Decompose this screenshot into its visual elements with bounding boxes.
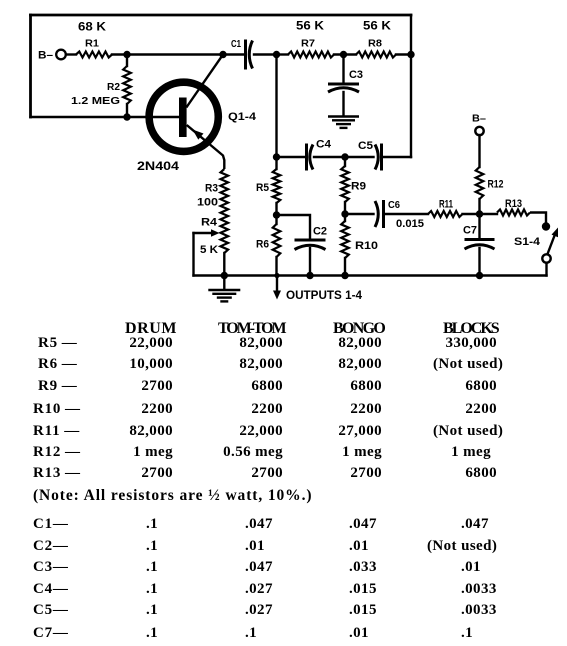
- svg-text:2N404: 2N404: [137, 159, 179, 173]
- svg-text:56 K: 56 K: [296, 18, 324, 32]
- node: R7/R8/C3 junction: [340, 51, 347, 58]
- svg-text:C1: C1: [231, 38, 241, 50]
- wire: C1 to R7 node: [254, 53, 276, 55]
- resistor R12: [476, 167, 484, 214]
- svg-text:C3: C3: [349, 69, 363, 81]
- capacitor C7: [465, 238, 495, 241]
- potentiometer R4 wiper arm: [194, 229, 220, 275]
- svg-text:R3: R3: [205, 183, 218, 195]
- wire: node to R7: [277, 53, 289, 55]
- wire: C7 to bottom rail: [478, 248, 480, 276]
- svg-text:100: 100: [197, 197, 218, 209]
- svg-text:R9: R9: [351, 181, 366, 193]
- svg-text:R12: R12: [488, 179, 504, 191]
- resistor R13: [480, 210, 531, 216]
- svg-text:B–: B–: [38, 50, 53, 62]
- wire: C2 to bottom rail: [309, 248, 311, 276]
- capacitor C6: [382, 200, 385, 228]
- svg-text:R6: R6: [256, 239, 269, 251]
- svg-text:R2: R2: [107, 81, 120, 93]
- svg-text:R11: R11: [439, 199, 453, 211]
- node: R5/C4 junction: [273, 153, 280, 160]
- wire: C5 to right edge: [383, 156, 411, 158]
- node: C7 bottom junction: [476, 272, 483, 279]
- wire: R9/R10 node to C6: [345, 213, 374, 215]
- transistor Q1-4 base bar: [179, 98, 187, 138]
- wire: C3 to ground: [342, 92, 344, 116]
- wire: left box bottom to transistor base: [31, 116, 179, 118]
- transistor Q1-4 body circle: [149, 82, 218, 151]
- wire: R7 to C3 node: [334, 53, 356, 55]
- resistor R3 and R4 (5K pot) element: [221, 169, 229, 276]
- resistor R2: [123, 55, 131, 118]
- wire: node to C5: [345, 156, 374, 158]
- wire: R1 to base node: [112, 53, 127, 55]
- svg-text:R10: R10: [355, 240, 378, 252]
- svg-text:C7: C7: [463, 225, 477, 237]
- svg-text:5 K: 5 K: [200, 244, 218, 256]
- wire: B- terminal to R1: [66, 53, 76, 55]
- frame wire: top feedback rail: [31, 14, 412, 17]
- wire: B- to R12: [478, 135, 480, 167]
- capacitor C1: [244, 40, 247, 70]
- wire: junction down to R5/C4 node: [275, 55, 277, 158]
- wire: C7 from summing node: [478, 214, 480, 238]
- svg-text:56 K: 56 K: [363, 18, 391, 32]
- capacitor C4: [305, 144, 308, 171]
- resistor R10: [341, 214, 349, 276]
- wire: R8 to right edge: [396, 53, 411, 55]
- ground below R4: [208, 276, 240, 302]
- node: R2 bottom junction: [123, 113, 130, 120]
- terminal B- right: [472, 112, 486, 135]
- node: R11/R12/R13/C7 junction: [476, 210, 483, 217]
- svg-text:R5: R5: [256, 182, 269, 194]
- wire: bottom rail: [194, 274, 547, 276]
- svg-text:C4: C4: [316, 139, 332, 151]
- resistor R5: [273, 157, 281, 215]
- svg-text:C6: C6: [388, 199, 400, 211]
- svg-text:B–: B–: [472, 112, 486, 124]
- svg-text:68 K: 68 K: [78, 19, 106, 33]
- switch S1-4 lever: [548, 228, 559, 255]
- circuit schematic: 4-channel percussion oscillator: [0, 0, 567, 312]
- capacitor C2: [295, 239, 326, 242]
- wire: junction to C1: [127, 53, 244, 55]
- resistor R11: [428, 211, 463, 217]
- node: R6/outputs junction: [274, 273, 279, 278]
- wire: C6 to R11: [385, 213, 428, 215]
- frame wire: right edge down to C5: [410, 15, 412, 157]
- node: R9/R10/C6 junction: [341, 210, 348, 217]
- terminal B- left: [38, 50, 66, 62]
- ground below C3: [328, 115, 359, 117]
- svg-text:R13: R13: [505, 198, 522, 210]
- resistor R8: [356, 52, 396, 58]
- capacitor C3: [328, 83, 359, 86]
- switch S1-4 moving contact: [542, 254, 550, 262]
- svg-text:R8: R8: [368, 37, 382, 49]
- switch S1-4 fixed contact: [542, 222, 550, 230]
- resistor R9: [341, 157, 349, 214]
- resistor R7: [288, 52, 334, 58]
- svg-text:R4: R4: [201, 217, 218, 229]
- wire: C4 to R9 node: [314, 156, 345, 158]
- svg-text:Q1-4: Q1-4: [228, 111, 257, 123]
- node: collector junction: [219, 51, 226, 58]
- node: C2 bottom junction: [306, 272, 313, 279]
- node: C4/C5/R9 junction: [341, 153, 348, 160]
- svg-text:C2: C2: [313, 226, 327, 238]
- svg-text:R7: R7: [301, 37, 315, 49]
- outputs arrow: [273, 276, 281, 300]
- wire: switch to bottom rail: [545, 263, 547, 276]
- node: R4/ground junction: [221, 272, 228, 279]
- resistor R6: [273, 215, 281, 276]
- svg-text:S1-4: S1-4: [514, 236, 541, 248]
- transistor Q1-4 collector lead: [187, 55, 223, 107]
- frame wire: left edge: [29, 15, 32, 117]
- resistor R1: [76, 52, 112, 58]
- svg-text:C5: C5: [358, 140, 373, 152]
- svg-text:1.2 MEG: 1.2 MEG: [71, 95, 120, 107]
- svg-text:0.015: 0.015: [396, 218, 424, 230]
- node: R5/R6/C2 junction: [273, 211, 280, 218]
- wire: R13 to switch contact: [530, 213, 546, 224]
- capacitor C5: [380, 144, 383, 171]
- node: R10 bottom junction: [341, 272, 348, 279]
- node: R1/R2 junction: [123, 51, 130, 58]
- wire: node to C4: [277, 156, 306, 158]
- svg-text:R1: R1: [85, 37, 99, 49]
- wire: C3 node down: [342, 55, 344, 84]
- wire: R11 to summing node: [463, 213, 480, 215]
- node: C1/R7/R5 junction: [273, 51, 280, 58]
- transistor Q1-4 emitter lead: [187, 125, 225, 169]
- svg-text:OUTPUTS 1-4: OUTPUTS 1-4: [286, 288, 362, 302]
- transistor Q1-4 emitter arrow (PNP): [193, 130, 204, 140]
- node: R8/right edge junction: [407, 51, 414, 58]
- wire: R5/R6 node to C2: [277, 215, 311, 239]
